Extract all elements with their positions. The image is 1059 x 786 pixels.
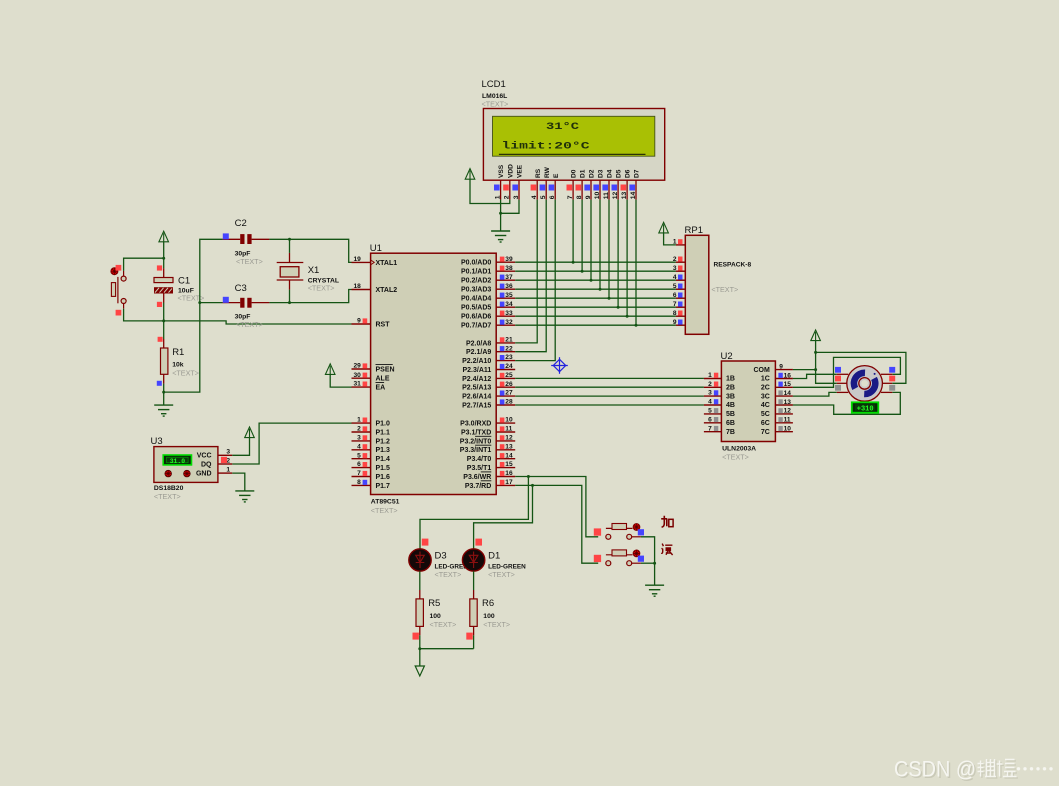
junction P3.7/D1 branch [531,484,534,487]
U1 pin 18 (XTAL2) stub [352,289,371,291]
LCD LCD1 pin 7 state square [567,185,573,191]
wire P0.5 to RP1 pin 7 [515,306,676,308]
svg-text:3C: 3C [761,393,770,400]
svg-text:13: 13 [505,443,513,450]
temperature sensor U3 DS18B20 body [154,447,218,483]
push button RESET bottom terminal [121,299,126,304]
svg-text:D3: D3 [435,551,447,562]
LCD LCD1 pin 14 (D7) stub [635,180,637,199]
wire RS net (LCD pin4 to P2.0) [515,200,537,343]
U2 pin 11 state square [778,417,782,422]
wire P0.6 to RP1 pin 8 [515,315,676,317]
junction D0/P0.0 [572,261,575,264]
ground symbol (LCD VSS) [491,231,510,242]
push button ADD (加) actuator circle [633,524,640,531]
LCD LCD1 pin 2 (VDD) stub [509,180,511,199]
RP1 pin 5 state square [678,284,683,289]
ground symbol (buttons) [645,585,664,596]
junction +V top branch [814,351,817,354]
U1 pin 23 state square [500,355,505,360]
svg-text:1B: 1B [726,376,735,383]
wire C3 left lead join [200,302,223,304]
RP1 pin 7 state square [678,302,683,307]
wire P0.2 to RP1 pin 4 [515,279,676,281]
svg-text:19: 19 [353,256,361,263]
svg-text:D3: D3 [598,169,605,178]
wire P0.7 to RP1 pin 9 [515,324,676,326]
U1 pin 10 state square [500,418,505,423]
push button ADD (加) blue state square [638,529,644,535]
U1 pin 3 state square [363,435,368,440]
U1 pin 30 state square [363,373,368,378]
push button RESET actuator circle [111,268,118,275]
wire P3.6 to button ADD and LED D3 [515,477,598,537]
LCD LCD1 pin 3 state square [512,185,518,191]
resistor R1 bottom lead [163,374,165,383]
U2 pin 16 state square [778,373,782,378]
svg-text:P1.6: P1.6 [376,474,391,481]
U1 pin 2 (P1.1) stub [352,431,371,433]
U1 pin 33 (P0.6/AD6) stub [496,315,515,317]
LED D3 state square [422,539,429,546]
U1 pin 36 state square [500,284,505,289]
svg-text:1: 1 [494,195,501,199]
stepper motor right pin leads [881,374,892,392]
svg-text:<TEXT>: <TEXT> [154,492,181,501]
svg-text:4: 4 [708,399,712,406]
svg-text:<TEXT>: <TEXT> [488,570,515,579]
capacitor C2 right lead [252,238,270,240]
U1 pin 9 state square [363,318,368,323]
svg-text:7B: 7B [726,429,735,436]
svg-text:P1.2: P1.2 [376,438,391,445]
svg-text:<TEXT>: <TEXT> [430,620,457,629]
svg-text:P0.3/AD3: P0.3/AD3 [461,287,491,294]
wire crystal bottom lead to net [289,290,291,303]
svg-text:D5: D5 [616,169,623,178]
capacitor C2 plates [240,234,244,244]
LCD LCD1 pin 9 state square [584,185,590,191]
svg-text:P2.3/A11: P2.3/A11 [462,367,491,374]
svg-text:VSS: VSS [498,164,505,178]
U1 pin 7 (P1.6) stub [352,476,371,478]
svg-text:3: 3 [357,435,361,442]
svg-text:P1.3: P1.3 [376,447,391,454]
RP1 pin 2 stub [676,261,685,263]
svg-text:11: 11 [505,426,512,433]
junction D1/P0.1 [581,270,584,273]
svg-text:1: 1 [708,372,712,379]
svg-text:36: 36 [505,283,513,290]
stepper motor state squares right (blue/red/gray) [889,367,895,373]
resistor R1 bottom state square [157,381,162,386]
push button SUB (减) bar [606,554,633,556]
svg-text:9: 9 [585,195,592,199]
capacitor C3 state square [223,297,229,303]
junction at +V net / button [162,257,165,260]
resistor R5 bottom state square [413,633,419,640]
U1 pin 26 state square [500,382,505,387]
CSDN watermark [894,757,1053,784]
wire C2/C3 ground return [164,239,223,392]
resistor R1 top state square [158,337,163,342]
U1 pin 12 state square [500,435,505,440]
LCD LCD1 pin 10 (D3) stub [599,180,601,199]
resistor R5 bottom lead [419,626,421,635]
svg-text:<TEXT>: <TEXT> [435,570,462,579]
U3 temperature display [163,455,191,465]
wire 4C to motor right pin D [793,392,900,414]
U1 pin 38 state square [500,266,505,271]
svg-text:9: 9 [779,363,783,370]
svg-text:12: 12 [784,408,792,415]
resistor R1 body [161,348,168,374]
power +5V symbol (LCD VDD) [465,169,475,180]
push button SUB (减) right lead [632,562,641,564]
junction D3/P0.3 [599,288,602,291]
svg-text:P1.0: P1.0 [376,421,391,428]
wire crystal top lead to net [289,239,291,253]
junction VSS/VEE [499,212,502,215]
svg-text:37: 37 [505,274,513,281]
svg-text:+310: +310 [857,406,874,414]
LCD LCD1 pin 1 (VSS) stub [500,180,502,199]
svg-text:12: 12 [612,192,619,200]
resistor R6 body [470,599,477,627]
svg-text:8: 8 [576,195,583,199]
svg-text:P3.2/INT0: P3.2/INT0 [460,438,492,445]
svg-text:31.0: 31.0 [170,458,186,465]
wire D4 net (LCD pin11 to P0.4) [608,200,610,299]
U1 pin 5 state square [363,453,368,458]
U1 pin 30 (ALE) stub [352,377,371,379]
push button SUB (减) red state square [594,555,601,562]
U1 pin 26 (P2.5/A13) stub [496,386,515,388]
push button SUB (减) actuator circle [633,550,640,557]
LCD LCD1 pin 10 state square [593,185,599,191]
RP1 pin 6 state square [678,293,683,298]
svg-text:P3.4/T0: P3.4/T0 [467,456,492,463]
U2 pin 15 state square [778,382,782,387]
svg-text:7: 7 [673,301,677,308]
U1 pin 29 state square [363,363,368,368]
svg-text:29: 29 [353,363,361,370]
power +5V symbol (U3 VCC) [245,427,255,438]
svg-text:3B: 3B [726,393,735,400]
LCD LCD1 pin 13 (D6) stub [626,180,628,199]
U3 down button (red) [184,470,191,477]
LED D1 state square [475,539,482,546]
U1 pin 28 state square [500,399,505,404]
U1 pin 9 (RST) stub [352,323,371,325]
U1 pin 19 (XTAL1) stub [352,261,371,263]
wire branch to LED D3 [420,477,528,549]
push button RESET bar [117,277,119,303]
LCD LCD1 pin 8 (D1) stub [581,180,583,199]
RP1 pin 9 stub [676,324,685,326]
svg-text:XTAL1: XTAL1 [376,260,398,267]
svg-text:D6: D6 [625,169,632,178]
U1 pin 31 (EA) stub [352,386,371,388]
svg-text:2C: 2C [761,385,770,392]
LCD LCD1 pin 2 state square [503,185,509,191]
svg-text:COM: COM [753,367,770,374]
U2 pin 2 state square [714,382,718,387]
LCD LCD1 pin 4 (RS) stub [536,180,538,199]
svg-text:D0: D0 [571,169,578,178]
RP1 pin 1 state square [678,239,683,244]
junction crystal bottom / XTAL2 net [288,301,291,304]
U1 pin 32 state square [500,320,505,325]
svg-text:4: 4 [357,443,361,450]
svg-text:25: 25 [505,372,513,379]
power +5V symbol (RP1 pin1) [659,222,669,233]
svg-text:3: 3 [673,265,677,272]
svg-text:11: 11 [784,417,791,424]
resistor R6 bottom lead [473,626,475,635]
svg-text:DS18B20: DS18B20 [154,485,184,492]
svg-text:P3.0/RXD: P3.0/RXD [460,421,491,428]
wire LED to resistor R5 [419,571,421,590]
svg-text:30: 30 [353,372,361,379]
U2 pin 5 state square [714,408,718,413]
U1 pin 8 (P1.7) stub [352,484,371,486]
U3 up button (red) [165,470,172,477]
svg-text:14: 14 [784,390,792,397]
junction D6/P0.6 [626,315,629,318]
wire branch to LED D1 [474,485,533,548]
stepper motor state squares left (blue/red/gray) [835,367,841,373]
svg-text:11: 11 [603,192,610,199]
wire D3 net (LCD pin10 to P0.3) [599,200,601,290]
U2 pin 6 (6B) stub [704,422,722,424]
U1 pin 4 (P1.3) stub [352,449,371,451]
U2 pin 10 state square [778,426,782,431]
RP1 pin 2 state square [678,257,683,262]
svg-text:5: 5 [540,195,547,199]
U3 pin 1 (GND) stub [218,472,232,474]
svg-text:U3: U3 [151,436,163,447]
svg-text:8: 8 [357,479,361,486]
LCD LCD1 pin 12 (D5) stub [617,180,619,199]
U2 pin 11 (6C) stub [775,422,793,424]
svg-text:VEE: VEE [517,164,524,178]
U1 pin 37 state square [500,275,505,280]
crystal X1 bottom plate line [277,279,304,281]
wire P0.0 to RP1 pin 2 [515,261,676,263]
LCD LCD1 screen cursor line [499,153,646,155]
svg-text:9: 9 [357,318,361,325]
capacitor C1 top state square [157,265,162,270]
U1 pin 5 (P1.4) stub [352,458,371,460]
svg-text:CSDN @: CSDN @ [894,757,976,782]
resistor R5 body [416,599,423,627]
LCD LCD1 pin 4 state square [531,185,537,191]
push button RESET bottom pin lead [123,304,125,309]
wire LED to resistor R6 [473,571,475,590]
junction R5/R6 [418,647,421,650]
junction ground net (C2/C3 return) [162,391,165,394]
svg-text:10k: 10k [172,362,184,369]
wire P2.6 to ULN2003A pin 3 [515,395,704,397]
push button ADD (加) left terminal [606,534,611,539]
svg-text:32: 32 [505,319,513,326]
svg-text:6C: 6C [761,420,770,427]
push button SUB (减) cap [612,550,627,556]
wire R1 bottom to ground [163,384,165,406]
svg-text:3: 3 [708,390,712,397]
LCD LCD1 pin 3 (VEE) stub [518,180,520,199]
svg-text:13: 13 [784,399,792,406]
LCD LCD1 pin 6 (E) stub [554,180,556,199]
LCD LCD1 pin 5 state square [540,185,546,191]
svg-text:RP1: RP1 [685,225,703,236]
svg-text:P3.6/WR: P3.6/WR [463,474,491,481]
LED D3 LED-GREEN symbol [409,549,431,571]
U2 pin 3 state square [714,390,718,395]
U2 pin 9 (COM) stub [775,369,793,371]
U1 pin 4 state square [363,444,368,449]
wire power to C1 [163,242,165,269]
power +5V symbol (motor COM) [811,330,821,341]
crystal X1 top lead [289,253,291,263]
svg-text:U1: U1 [370,243,382,254]
RP1 pin 8 stub [676,315,685,317]
U1 pin 32 (P0.7/AD7) stub [496,324,515,326]
svg-text:4: 4 [673,274,677,281]
U2 pin 4 (4B) stub [704,404,722,406]
svg-text:P2.1/A9: P2.1/A9 [466,349,491,356]
U1 pin 1 (P1.0) stub [352,422,371,424]
svg-text:31°C: 31°C [546,121,580,133]
svg-text:RST: RST [376,321,391,328]
capacitor C3 right lead [252,302,270,304]
svg-text:R6: R6 [482,598,494,609]
svg-text:C3: C3 [235,283,247,294]
svg-text:P2.0/A8: P2.0/A8 [466,340,491,347]
U1 pin 35 (P0.4/AD4) stub [496,297,515,299]
svg-text:27: 27 [505,390,513,397]
svg-text:P3.1/TXD: P3.1/TXD [461,429,491,436]
svg-text:5B: 5B [726,411,735,418]
U1 pin 27 (P2.6/A14) stub [496,395,515,397]
U1 pin 33 state square [500,311,505,316]
svg-text:4: 4 [531,195,538,199]
U1 pin 24 state square [500,364,505,369]
U1 pin 11 state square [500,426,505,431]
wire RW net (LCD pin5 to P2.1) [515,200,546,352]
svg-text:P2.5/A13: P2.5/A13 [462,385,491,392]
svg-text:<TEXT>: <TEXT> [482,100,509,109]
svg-text:5C: 5C [761,411,770,418]
junction C3/ground vertical [198,301,201,304]
capacitor C1 top lead [163,268,165,277]
wire U3 GND to ground [232,473,245,491]
svg-text:D4: D4 [607,169,614,178]
svg-text:P2.2/A10: P2.2/A10 [462,358,491,365]
RP1 pin 3 state square [678,266,683,271]
U1 pin 12 (P3.2/INT0) stub [496,440,515,442]
svg-text:17: 17 [505,479,513,486]
LED D1 LED-GREEN symbol [462,549,484,571]
svg-text:35: 35 [505,292,513,299]
U3 pin 2 (DQ) stub [218,463,232,465]
wire D6 net (LCD pin13 to P0.6) [626,200,628,317]
wire D0 net (LCD pin7 to P0.0) [572,200,574,263]
svg-text:6B: 6B [726,420,735,427]
U2 pin 5 (5B) stub [704,413,722,415]
U3 pin 3 (VCC) stub [218,454,232,456]
svg-text:3: 3 [513,195,520,199]
svg-text:VCC: VCC [197,453,212,460]
svg-text:6: 6 [549,195,556,199]
ground symbol (R1) [154,405,173,416]
svg-text:<TEXT>: <TEXT> [308,284,335,293]
wire C1 bottom to R1 [163,303,165,340]
svg-text:10: 10 [784,426,792,433]
LCD LCD1 pin 1 state square [494,185,500,191]
ground symbol (U3 GND) [235,491,254,502]
RP1 pin 5 stub [676,288,685,290]
U2 pin 4 state square [714,399,718,404]
resistor pack RP1 body [685,235,709,334]
U1 pin 16 (P3.6/WR) stub [496,476,515,478]
svg-text:P3.5/T1: P3.5/T1 [467,465,492,472]
push button RESET cap [111,283,115,297]
svg-text:P1.7: P1.7 [376,483,391,490]
svg-text:AT89C51: AT89C51 [371,499,400,506]
push button RESET top state square [116,265,122,271]
svg-text:2: 2 [673,256,677,263]
U2 pin 1 state square [714,373,718,378]
capacitor C3 left lead [222,302,240,304]
wire +V top branch to motor right common [816,352,906,383]
wire D1 net (LCD pin8 to P0.1) [581,200,583,272]
junction D5/P0.5 [617,306,620,309]
origin marker (blue crosshair) [551,357,568,374]
svg-text:8: 8 [673,310,677,317]
svg-text:6: 6 [357,461,361,468]
svg-text:P0.6/AD6: P0.6/AD6 [461,314,491,321]
U1 pin 17 (P3.7/RD) stub [496,484,515,486]
crystal X1 body [280,267,299,277]
svg-text:U2: U2 [721,351,733,362]
U1 pin 38 (P0.1/AD1) stub [496,270,515,272]
svg-text:P1.5: P1.5 [376,465,391,472]
svg-text:X1: X1 [308,265,320,276]
junction button ground net [653,562,656,565]
svg-text:<TEXT>: <TEXT> [711,285,738,294]
resistor R6 top lead [473,590,475,599]
svg-text:RESPACK-8: RESPACK-8 [714,262,752,269]
LCD LCD1 pin 7 (D0) stub [572,180,574,199]
push button RESET top pin lead [123,271,125,276]
wire XTAL1 net [269,239,351,262]
U2 pin 12 state square [778,408,782,413]
U3 pin 2 state square [221,457,227,463]
wire EA to power [330,374,351,387]
svg-text:10: 10 [505,417,513,424]
svg-text:2: 2 [708,381,712,388]
svg-text:12: 12 [505,435,513,442]
svg-text:10: 10 [594,192,601,200]
LCD LCD1 pin 14 state square [629,185,635,191]
svg-text:7C: 7C [761,429,770,436]
U1 pin 6 (P1.5) stub [352,467,371,469]
RP1 pin 6 stub [676,297,685,299]
svg-text:P1.1: P1.1 [376,429,391,436]
capacitor C1 plates (polarized 10uF) [154,278,173,283]
